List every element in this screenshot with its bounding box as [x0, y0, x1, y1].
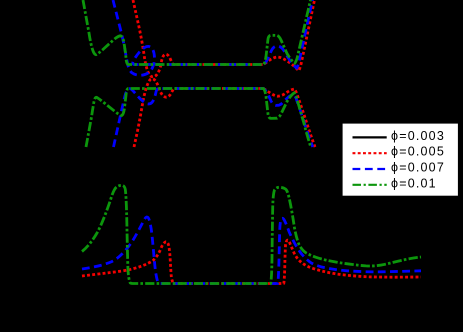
bottom subplot: red curve phi=0.005	[82, 240, 421, 283]
legend labels	[391, 129, 445, 190]
top subplot: lower branch green curve phi=0.01	[86, 89, 311, 148]
bottom subplot: blue curve phi=0.007	[82, 217, 421, 284]
svg-text:ϕ=0.007: ϕ=0.007	[391, 161, 445, 175]
top subplot: upper branch blue curve phi=0.007	[113, 0, 313, 75]
top subplot: upper branch green curve phi=0.01	[83, 0, 311, 65]
legend sample line phi=0.005 (red dotted)	[353, 152, 387, 154]
svg-text:ϕ=0.003: ϕ=0.003	[391, 129, 445, 143]
top subplot: upper branch red curve phi=0.005	[133, 0, 315, 77]
bottom subplot: green curve phi=0.01	[82, 185, 421, 283]
legend sample line phi=0.01 (green dash-dot)	[353, 184, 387, 186]
legend box	[342, 123, 459, 196]
top subplot: lower branch blue curve phi=0.007	[114, 89, 313, 148]
legend sample line phi=0.007 (blue dashed)	[353, 168, 387, 170]
svg-text:ϕ=0.01: ϕ=0.01	[391, 176, 437, 190]
top subplot: lower branch red curve phi=0.005	[134, 79, 315, 147]
legend sample line phi=0.003 (black solid)	[353, 136, 387, 138]
svg-text:ϕ=0.005: ϕ=0.005	[391, 145, 445, 159]
